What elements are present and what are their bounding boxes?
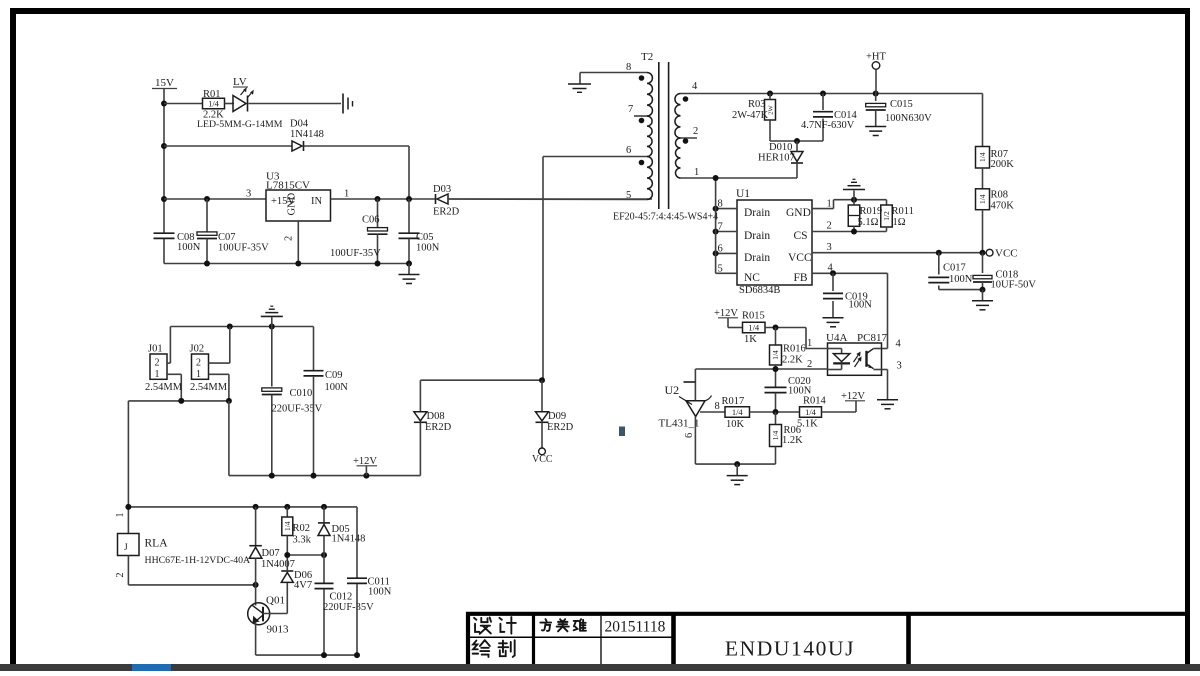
svg-text:SD6834B: SD6834B <box>739 285 780 296</box>
svg-text:2: 2 <box>827 221 832 232</box>
svg-text:5: 5 <box>718 263 723 274</box>
svg-text:Q01: Q01 <box>266 595 285 607</box>
svg-text:1/4: 1/4 <box>748 323 760 333</box>
svg-text:100N: 100N <box>849 300 873 311</box>
svg-text:R015: R015 <box>742 311 765 322</box>
svg-text:7: 7 <box>628 104 633 115</box>
svg-text:6: 6 <box>626 145 631 156</box>
svg-text:100N: 100N <box>416 243 440 254</box>
svg-text:Drain: Drain <box>744 230 770 242</box>
svg-text:U1: U1 <box>736 188 750 200</box>
svg-text:20151118: 20151118 <box>605 619 666 636</box>
svg-text:R017: R017 <box>722 396 745 407</box>
svg-text:D04: D04 <box>290 119 309 130</box>
svg-text:2.54MM: 2.54MM <box>145 382 183 393</box>
svg-text:R019: R019 <box>860 206 883 217</box>
svg-text:ER2D: ER2D <box>433 207 460 218</box>
svg-text:HER107: HER107 <box>758 153 795 164</box>
svg-text:220UF-35V: 220UF-35V <box>323 602 374 613</box>
svg-text:10UF-50V: 10UF-50V <box>991 280 1037 291</box>
svg-text:3.3k: 3.3k <box>293 535 312 546</box>
svg-text:VCC: VCC <box>995 248 1018 260</box>
svg-text:HHC67E-1H-12VDC-40A: HHC67E-1H-12VDC-40A <box>145 555 251 566</box>
svg-text:U2: U2 <box>665 383 680 397</box>
svg-text:T2: T2 <box>641 51 653 63</box>
svg-text:R03: R03 <box>748 99 766 110</box>
svg-text:ENDU140UJ: ENDU140UJ <box>725 637 855 661</box>
svg-text:470K: 470K <box>991 201 1015 212</box>
svg-text:2.54MM: 2.54MM <box>190 382 228 393</box>
svg-text:+HT: +HT <box>866 52 887 63</box>
svg-text:LV: LV <box>233 76 247 88</box>
svg-text:GND: GND <box>786 207 811 219</box>
svg-text:2W: 2W <box>768 104 775 114</box>
svg-text:R014: R014 <box>803 396 827 407</box>
svg-text:C012: C012 <box>330 592 353 603</box>
svg-text:1Ω: 1Ω <box>893 217 906 228</box>
svg-text:U4A: U4A <box>826 332 847 344</box>
svg-text:1: 1 <box>115 513 126 518</box>
svg-text:C09: C09 <box>325 370 343 381</box>
svg-text:1/4: 1/4 <box>732 407 744 417</box>
svg-text:1/4: 1/4 <box>805 407 817 417</box>
svg-text:ER2D: ER2D <box>425 422 452 433</box>
svg-text:2W-47K: 2W-47K <box>732 110 769 121</box>
svg-text:D010: D010 <box>769 142 792 153</box>
svg-text:2: 2 <box>693 126 698 137</box>
svg-text:1: 1 <box>155 369 160 380</box>
svg-text:IN: IN <box>311 196 322 207</box>
svg-text:1/4: 1/4 <box>771 430 780 440</box>
svg-text:1: 1 <box>344 189 349 200</box>
svg-text:4.7NF-630V: 4.7NF-630V <box>801 120 855 131</box>
svg-text:3: 3 <box>897 361 902 372</box>
svg-text:C06: C06 <box>362 215 380 226</box>
svg-text:1/4: 1/4 <box>208 99 220 109</box>
svg-text:NC: NC <box>744 272 760 284</box>
svg-text:100N: 100N <box>368 587 392 598</box>
svg-text:2: 2 <box>196 358 201 369</box>
svg-text:1/4: 1/4 <box>978 152 987 162</box>
svg-text:10K: 10K <box>726 419 745 430</box>
svg-text:J01: J01 <box>148 344 163 355</box>
svg-text:1/2: 1/2 <box>882 211 891 221</box>
svg-text:6: 6 <box>684 433 695 438</box>
svg-text:1.2K: 1.2K <box>782 435 803 446</box>
svg-text:2.2K: 2.2K <box>782 355 803 366</box>
svg-text:C017: C017 <box>943 263 966 274</box>
svg-text:R08: R08 <box>991 190 1009 201</box>
svg-text:C015: C015 <box>890 99 913 110</box>
svg-text:220UF-35V: 220UF-35V <box>272 404 323 415</box>
svg-text:8: 8 <box>626 62 631 73</box>
svg-text:5.1Ω: 5.1Ω <box>858 217 879 228</box>
svg-text:D03: D03 <box>433 184 451 195</box>
svg-text:Drain: Drain <box>744 207 770 219</box>
svg-text:1: 1 <box>196 369 201 380</box>
svg-text:1N4148: 1N4148 <box>290 129 324 140</box>
svg-text:C07: C07 <box>218 232 236 243</box>
svg-text:R016: R016 <box>783 344 806 355</box>
svg-text:PC817: PC817 <box>857 332 887 344</box>
svg-text:1N4148: 1N4148 <box>332 534 366 545</box>
svg-text:100N: 100N <box>177 242 201 253</box>
svg-text:TL431_1: TL431_1 <box>659 418 700 430</box>
svg-text:Drain: Drain <box>744 252 770 264</box>
svg-text:GND: GND <box>287 192 298 215</box>
svg-text:4: 4 <box>896 339 902 350</box>
svg-text:100UF-35V: 100UF-35V <box>218 243 269 254</box>
svg-text:100N630V: 100N630V <box>885 113 932 124</box>
svg-text:2: 2 <box>115 573 126 578</box>
svg-text:RLA: RLA <box>145 538 169 550</box>
svg-text:1/4: 1/4 <box>283 521 292 531</box>
svg-text:D08: D08 <box>427 411 445 422</box>
svg-text:D07: D07 <box>262 548 280 559</box>
svg-text:100N: 100N <box>949 274 973 285</box>
svg-text:J02: J02 <box>190 344 205 355</box>
svg-text:100N: 100N <box>325 382 349 393</box>
svg-text:1N4007: 1N4007 <box>261 559 295 570</box>
svg-text:VCC: VCC <box>788 252 812 264</box>
svg-text:4V7: 4V7 <box>294 580 312 591</box>
svg-text:3: 3 <box>827 242 832 253</box>
svg-text:2: 2 <box>284 236 295 241</box>
svg-text:R02: R02 <box>293 523 311 534</box>
svg-text:100UF-35V: 100UF-35V <box>330 248 381 259</box>
svg-text:EF20-45:7:4:4:45-WS4+4: EF20-45:7:4:4:45-WS4+4 <box>613 212 718 223</box>
svg-text:15V: 15V <box>155 77 174 89</box>
svg-text:L7815CV: L7815CV <box>266 180 310 192</box>
svg-text:J: J <box>124 543 128 553</box>
svg-text:2: 2 <box>155 358 160 369</box>
svg-text:9013: 9013 <box>267 624 290 636</box>
svg-text:1/4: 1/4 <box>978 194 987 204</box>
svg-text:1K: 1K <box>744 334 757 345</box>
svg-text:CS: CS <box>794 230 808 242</box>
svg-text:C010: C010 <box>290 388 313 399</box>
svg-text:3: 3 <box>246 189 251 200</box>
svg-text:200K: 200K <box>991 159 1015 170</box>
svg-text:R01: R01 <box>203 89 221 100</box>
svg-text:4: 4 <box>692 81 698 92</box>
svg-text:8: 8 <box>715 401 720 412</box>
svg-text:1: 1 <box>694 167 699 178</box>
svg-text:C05: C05 <box>416 232 434 243</box>
svg-text:1: 1 <box>807 338 812 349</box>
svg-text:LED-5MM-G-14MM: LED-5MM-G-14MM <box>197 119 283 130</box>
svg-text:VCC: VCC <box>532 454 553 465</box>
svg-text:1/4: 1/4 <box>771 350 780 360</box>
svg-text:R011: R011 <box>892 206 914 217</box>
svg-text:ER2D: ER2D <box>547 422 574 433</box>
svg-text:FB: FB <box>794 272 808 284</box>
svg-text:5: 5 <box>626 190 631 201</box>
svg-text:D09: D09 <box>548 411 566 422</box>
